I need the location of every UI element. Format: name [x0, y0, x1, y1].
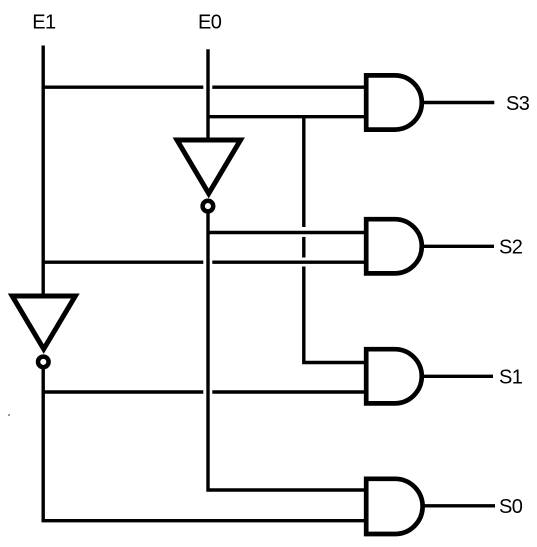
svg-text:S3: S3 — [506, 93, 530, 115]
svg-text:S1: S1 — [499, 367, 523, 389]
svg-text:S2: S2 — [499, 237, 523, 259]
svg-text:S0: S0 — [499, 496, 523, 518]
svg-text:E0: E0 — [198, 12, 222, 34]
svg-text:E1: E1 — [32, 12, 56, 34]
